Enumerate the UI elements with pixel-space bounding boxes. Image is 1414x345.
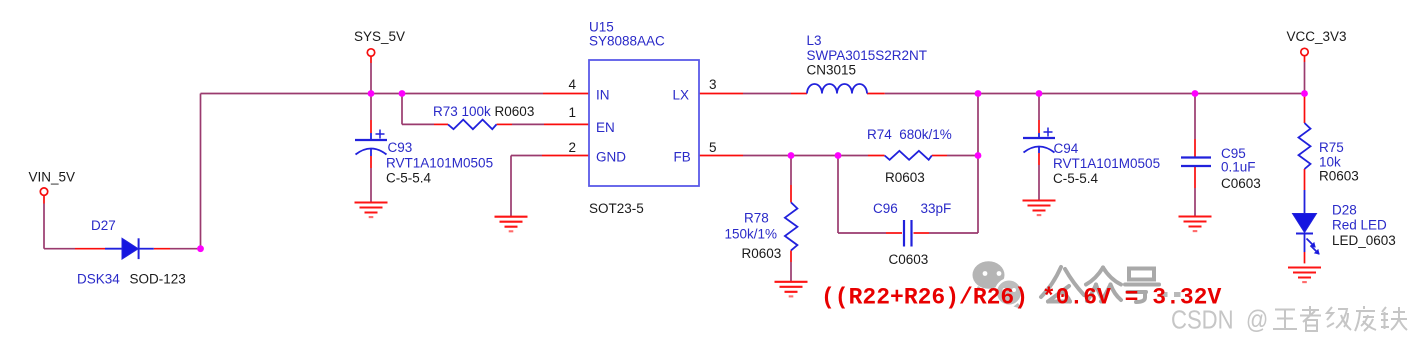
svg-text:Red LED: Red LED	[1332, 218, 1387, 233]
watermark glyph gong	[1041, 267, 1084, 302]
svg-text:5: 5	[709, 140, 717, 155]
csdn glyph fei	[1355, 306, 1376, 331]
csdn glyph tie	[1381, 307, 1407, 330]
pin stub VCC port	[1304, 56, 1306, 62]
wire C94 to ground	[1038, 165, 1040, 200]
svg-text:R75: R75	[1319, 140, 1344, 155]
port circle VIN_5V	[40, 188, 47, 195]
PORT-CIRCLES	[40, 48, 1308, 195]
JUNCTION-DOTS	[197, 90, 1308, 252]
svg-text:33pF: 33pF	[921, 201, 952, 216]
RED-STUBS-LAYER	[44, 56, 1305, 264]
node dot FB C96 left	[835, 152, 842, 159]
wire C93 bottom to ground	[370, 168, 372, 203]
svg-text:4: 4	[568, 77, 576, 92]
svg-text:R0603: R0603	[1319, 169, 1359, 184]
node dot diode corner	[197, 245, 204, 252]
watermark trailing dots	[1161, 292, 1168, 297]
resistor R78 symbol	[785, 202, 798, 250]
svg-text:LX: LX	[673, 88, 690, 103]
wire C93 top drop	[370, 94, 372, 121]
port circle SYS_5V	[367, 49, 374, 56]
pin stub U15 FB	[699, 155, 743, 157]
TEXT-LAYER	[29, 20, 1396, 287]
svg-text:GND: GND	[596, 150, 626, 165]
svg-text:150k/1%: 150k/1%	[725, 227, 778, 242]
wire C96 left drop	[837, 156, 839, 234]
wire SYS_5V drop	[370, 63, 372, 94]
svg-text:D28: D28	[1332, 203, 1357, 218]
pin stub D27 anode	[75, 248, 105, 250]
CSDN-WATERMARK	[1171, 306, 1407, 335]
wire C96 bottom left	[838, 232, 886, 234]
node dot C95 tap	[1192, 90, 1199, 97]
wire L3 to VCC rail	[885, 93, 1305, 95]
svg-text:SOT23-5: SOT23-5	[589, 201, 644, 216]
pin stub SYS port	[370, 56, 372, 63]
pin stub U15 IN	[543, 93, 589, 95]
svg-text:10k: 10k	[1319, 155, 1341, 170]
wire VCC_3V3 drop	[1304, 62, 1306, 94]
node dot SYS/C93	[368, 90, 375, 97]
wire EN branch vertical	[401, 94, 403, 125]
svg-text:R0603: R0603	[885, 170, 925, 185]
svg-text:R0603: R0603	[742, 246, 782, 261]
wire GND pin horizontal	[511, 155, 542, 157]
pin stub R74 left	[868, 155, 885, 157]
pin stub U15 GND	[542, 155, 589, 157]
wire top horizontal to IN	[201, 93, 544, 95]
pin stub L3 right	[867, 93, 885, 95]
pin stub U15 EN	[544, 123, 589, 125]
svg-text:VIN_5V: VIN_5V	[29, 170, 76, 185]
wechat icon small bubble	[996, 279, 1022, 309]
capacitor C93 symbol	[355, 130, 387, 157]
wire R78 drop	[790, 156, 792, 186]
svg-text:2: 2	[568, 140, 576, 155]
pin stub C94 top	[1038, 120, 1040, 133]
watermark glyph zhong	[1086, 268, 1121, 302]
svg-text:CSDN @: CSDN @	[1171, 306, 1268, 335]
pin stub R75 bottom	[1304, 169, 1306, 190]
pin stub L3 left	[791, 93, 807, 95]
ground C93	[355, 203, 388, 218]
svg-text:EN: EN	[596, 120, 615, 135]
node dot output FB	[975, 152, 982, 159]
pin stub R78 top	[790, 185, 792, 202]
resistor R73 symbol	[448, 120, 497, 130]
pin stub R74 right	[932, 155, 947, 157]
svg-text:R78: R78	[744, 211, 769, 226]
wire diode left maroon	[44, 248, 75, 250]
pin stub D28 bottom	[1304, 252, 1306, 263]
pin stub VIN port	[43, 195, 45, 203]
svg-text:SY8088AAC: SY8088AAC	[589, 34, 665, 49]
GROUND-SYMBOLS	[355, 201, 1322, 297]
wire LX to L3	[743, 93, 791, 95]
capacitor C95 symbol	[1181, 158, 1211, 167]
pin stub C95 top	[1194, 139, 1196, 157]
svg-text:C0603: C0603	[889, 252, 929, 267]
svg-text:RVT1A101M0505: RVT1A101M0505	[1053, 156, 1160, 171]
resistor R74 symbol	[885, 151, 932, 160]
svg-text:((R22+R26)/R26) *0.6V = 3.32V: ((R22+R26)/R26) *0.6V = 3.32V	[821, 285, 1221, 311]
COMPONENT-SYMBOLS	[105, 60, 1319, 259]
ground C94	[1023, 201, 1056, 216]
pin stub R73 left	[434, 123, 448, 125]
ground C95	[1179, 217, 1212, 232]
WIRES-LAYER	[44, 62, 1305, 282]
port circle VCC_3V3	[1301, 48, 1308, 55]
wechat icon big bubble	[973, 261, 1005, 292]
watermark glyph hao	[1125, 269, 1159, 303]
WATERMARK-LAYER	[973, 261, 1181, 309]
svg-text:C94: C94	[1054, 141, 1079, 156]
svg-text:IN: IN	[596, 88, 610, 103]
csdn glyph ji	[1327, 307, 1351, 330]
node dot C94 tap	[1036, 90, 1043, 97]
wire C94 drop top	[1038, 94, 1040, 121]
svg-text:D27: D27	[91, 218, 116, 233]
wire left riser vertical	[200, 94, 202, 249]
node dot VCC tap	[1301, 90, 1308, 97]
svg-text:C-5-5.4: C-5-5.4	[386, 171, 432, 186]
pin stub D27 cathode	[154, 248, 170, 250]
svg-text:R74 680k/1%: R74 680k/1%	[867, 127, 952, 142]
svg-text:DSK34: DSK34	[77, 272, 120, 287]
svg-text:1: 1	[568, 105, 576, 120]
wire EN branch horizontal	[402, 123, 434, 125]
IC U15 body	[589, 60, 699, 186]
pin stub C95 bottom	[1194, 167, 1196, 189]
ground D28	[1288, 268, 1321, 283]
svg-text:C-5-5.4: C-5-5.4	[1053, 171, 1099, 186]
inductor L3 symbol	[807, 84, 867, 94]
wire diode right maroon	[170, 248, 201, 250]
ground U15 GND	[495, 217, 528, 232]
LED D28 symbol	[1293, 190, 1320, 254]
wire R73 to EN	[512, 123, 544, 125]
svg-text:RVT1A101M0505: RVT1A101M0505	[386, 156, 493, 171]
pin stub U15 LX	[699, 93, 743, 95]
csdn glyph wang	[1273, 310, 1297, 330]
svg-text:L3: L3	[807, 33, 822, 48]
pin stub C93 top	[370, 120, 372, 133]
wire VIN_5V vertical	[43, 204, 45, 249]
resistor R75 symbol	[1299, 123, 1311, 169]
svg-text:LED_0603: LED_0603	[1332, 233, 1396, 248]
wire R78 to ground	[790, 262, 792, 282]
wire output node vertical	[977, 94, 979, 234]
svg-text:CN3015: CN3015	[807, 62, 857, 77]
svg-text:C96: C96	[873, 201, 898, 216]
pin stub C96 left	[886, 232, 902, 234]
wire C95 drop top	[1194, 94, 1196, 140]
svg-text:FB: FB	[674, 150, 691, 165]
svg-text:R73 100k R0603: R73 100k R0603	[433, 104, 534, 119]
svg-text:0.1uF: 0.1uF	[1221, 160, 1256, 175]
wire R74 right to node	[947, 155, 978, 157]
csdn glyph zhe	[1300, 306, 1321, 331]
node dot output rail	[975, 90, 982, 97]
wire C96 bottom right	[929, 232, 978, 234]
svg-text:C0603: C0603	[1221, 176, 1261, 191]
svg-text:SWPA3015S2R2NT: SWPA3015S2R2NT	[807, 48, 928, 63]
pin stub R78 bottom	[790, 250, 792, 262]
capacitor C96 symbol	[904, 220, 912, 247]
svg-text:U15: U15	[589, 20, 614, 35]
wire GND pin drop	[510, 156, 512, 217]
svg-text:VCC_3V3: VCC_3V3	[1287, 29, 1347, 44]
node dot FB R78	[788, 152, 795, 159]
svg-text:C93: C93	[388, 140, 413, 155]
wire C95 to ground	[1194, 188, 1196, 216]
diode D27 symbol	[105, 238, 154, 259]
pin stub R75 top	[1304, 94, 1306, 124]
pin stub C94 bottom	[1038, 153, 1040, 165]
pin stub R73 right	[497, 123, 513, 125]
ground R78	[775, 282, 808, 297]
svg-text:3: 3	[709, 77, 717, 92]
capacitor C94 symbol	[1023, 128, 1055, 154]
svg-text:SOD-123: SOD-123	[130, 272, 186, 287]
pin stub C96 right	[914, 232, 930, 234]
pin stub C93 bottom	[370, 156, 372, 168]
wire FB horizontal	[743, 155, 868, 157]
svg-text:SYS_5V: SYS_5V	[354, 29, 405, 44]
node dot EN branch	[399, 90, 406, 97]
